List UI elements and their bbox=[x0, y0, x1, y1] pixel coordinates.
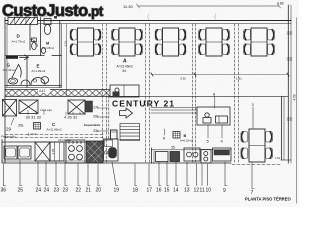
truss band bbox=[5, 90, 110, 97]
divided cabinet bbox=[50, 142, 64, 161]
scan border right bbox=[296, 18, 298, 203]
counter mid-right top line bbox=[152, 149, 232, 151]
labels 17L 20L Esquentador 33L bbox=[84, 106, 100, 134]
dashed glazing line pair 1 bbox=[103, 24, 107, 162]
bathroom wall vertical G|E bbox=[26, 58, 28, 88]
hatched wall band top-left bbox=[8, 18, 38, 25]
dashed vertical pair mid bbox=[108, 96, 110, 140]
bathroom wall bottom of block bbox=[5, 85, 62, 87]
labels 30 31 32 bbox=[26, 108, 53, 120]
door swing G bbox=[12, 65, 21, 78]
faint scan arc artifacts bbox=[148, 14, 216, 21]
bottom number row bbox=[1, 188, 254, 197]
wall right (double) bbox=[287, 5, 289, 163]
room C label bbox=[28, 122, 63, 137]
taps fixture bbox=[201, 150, 211, 164]
bathroom wall right of block bbox=[59, 21, 61, 88]
stair X-box left A bbox=[3, 100, 17, 117]
bottom dashes right bbox=[232, 164, 281, 166]
wall top bbox=[5, 20, 291, 22]
label 29 bbox=[11, 118, 14, 125]
dark cabinet bbox=[170, 152, 180, 162]
circulation dashed corridor bbox=[5, 135, 103, 138]
staircase treads bbox=[120, 124, 140, 141]
kitchen box right bbox=[197, 107, 230, 125]
table group cx=85.5 bbox=[70, 28, 101, 56]
sink 2 bbox=[18, 146, 31, 159]
toilet centre compartment bbox=[32, 38, 37, 42]
leader lines to bottom numbers bbox=[3, 164, 5, 186]
dishwasher icon B bbox=[173, 132, 180, 139]
basin G bbox=[8, 78, 17, 84]
entrance arrow bbox=[20, 55, 29, 60]
bathroom wall D|centre bbox=[29, 24, 31, 51]
dark box bbox=[86, 101, 93, 112]
kitchen counter lines right bbox=[151, 107, 197, 109]
entrance door bar (black) bbox=[6, 56, 18, 59]
cabinet with circles bbox=[184, 148, 200, 161]
counter bottom line bbox=[2, 162, 231, 164]
top dimension line 11.30 bbox=[123, 2, 284, 10]
dashed glazing line pair 3 bbox=[193, 24, 196, 162]
dashed glazing line pair 4 bbox=[235, 24, 239, 162]
bottom-right table group bbox=[241, 129, 272, 162]
room A label bbox=[117, 59, 134, 74]
bathroom wall horizontal mid bbox=[5, 55, 44, 57]
small fixture next to stairs bbox=[111, 130, 118, 139]
counter X box bbox=[35, 142, 50, 161]
room G label bbox=[3, 63, 15, 73]
sink 1 bbox=[4, 146, 17, 159]
small cabinet bbox=[156, 152, 169, 162]
machine box with circle bbox=[110, 85, 139, 97]
door arc room D bbox=[30, 39, 38, 47]
basin E large counter bbox=[31, 78, 45, 85]
basin room M bbox=[42, 48, 46, 54]
big entrance arrow bbox=[120, 108, 133, 118]
room M label bbox=[42, 42, 54, 51]
cooker bbox=[66, 140, 85, 163]
dark hatched unit bbox=[87, 141, 104, 163]
4.47 text on band bbox=[38, 88, 50, 93]
basin E oval bbox=[41, 77, 49, 84]
room D label bbox=[12, 34, 26, 44]
right pilaster bbox=[281, 96, 283, 160]
stair X-box left B bbox=[19, 100, 38, 114]
dimension line mid right bbox=[152, 74, 288, 76]
coffee machine unit bbox=[104, 139, 119, 161]
counter top line left bbox=[2, 141, 103, 143]
toilet room M bbox=[44, 19, 51, 25]
room B label bbox=[180, 134, 193, 143]
room E label bbox=[32, 64, 46, 74]
basin E small bbox=[21, 80, 30, 85]
wall left bbox=[4, 18, 6, 164]
table group cx=170.5 bbox=[155, 28, 186, 56]
window tick marks on right wall bbox=[287, 32, 292, 120]
table group cx=259 bbox=[244, 28, 275, 56]
tiny dimension ticks above hatch band bbox=[8, 14, 57, 19]
bathroom wall centre|M bbox=[40, 18, 42, 56]
cash unit dark band bbox=[213, 148, 232, 161]
mid boundary line bbox=[110, 95, 288, 97]
stair X-box 2 bbox=[68, 100, 85, 114]
table group cx=214 bbox=[199, 28, 230, 56]
dashed glazing line pair 2 bbox=[146, 24, 150, 162]
table group cx=127 bbox=[112, 28, 143, 56]
leader hooks bbox=[4, 186, 255, 189]
dimension vertical line with 3.16 bbox=[66, 24, 68, 96]
